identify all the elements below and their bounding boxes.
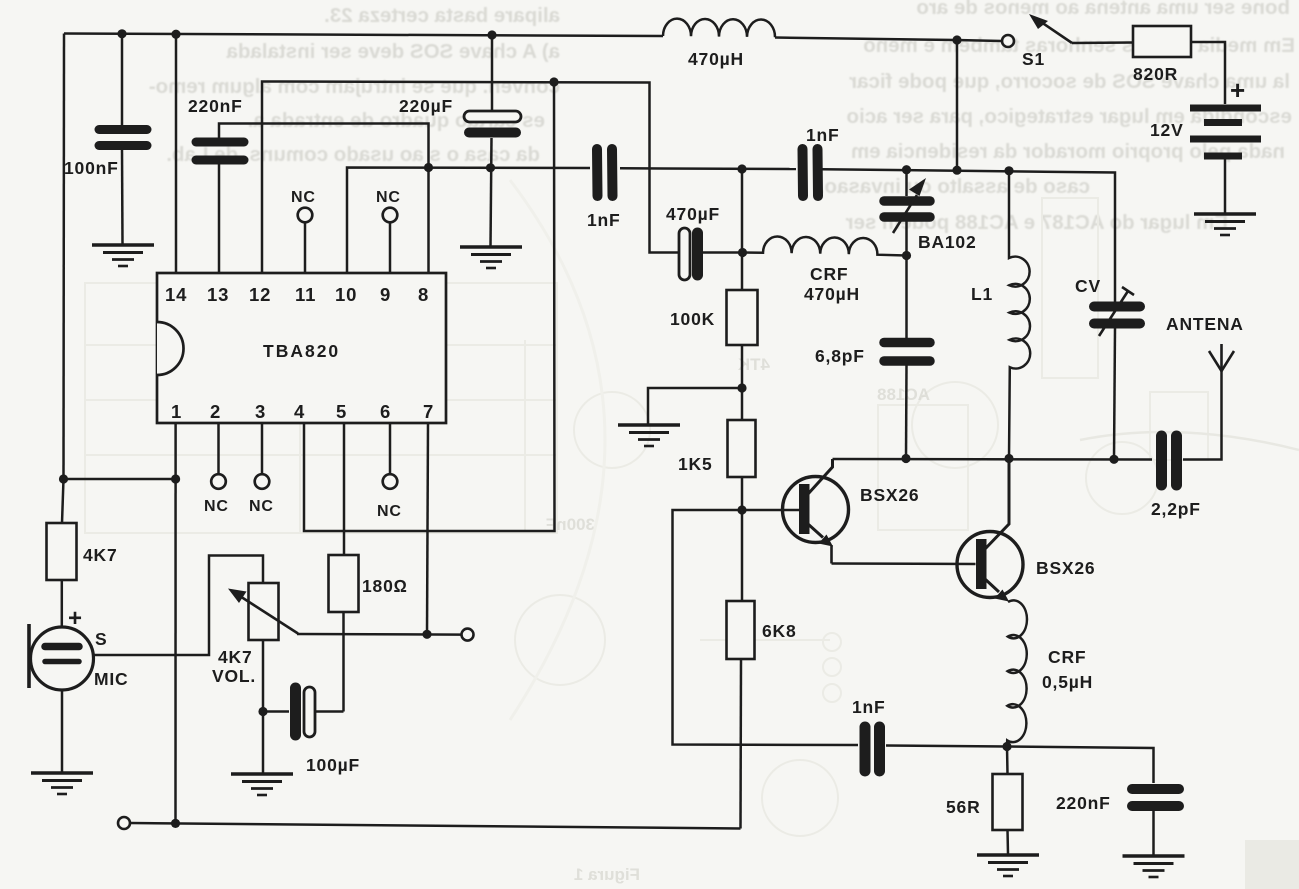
svg-text:56R: 56R (946, 797, 981, 817)
transistor Q1 base bar (799, 484, 810, 534)
ground below 220nF (1123, 856, 1185, 877)
resistor 4K7 body (47, 523, 77, 580)
capacitor 220uF bottom lead to ground (491, 138, 492, 246)
svg-text:10: 10 (335, 284, 357, 305)
terminal open circle bottom left (118, 817, 130, 829)
node junction dot bottom rail pin1 (171, 819, 180, 828)
svg-text:alipare basta certeza 23.: alipare basta certeza 23. (324, 4, 560, 27)
varicap BA102 bottom lead (905, 221, 908, 256)
svg-text:NC: NC (204, 498, 229, 515)
microphone MIC circle (31, 627, 94, 690)
wire: RF node to 220nF corner (1007, 747, 1154, 784)
inductor CRF 0.5uH (vertical) (1007, 600, 1027, 746)
svg-text:S1: S1 (1022, 49, 1045, 69)
node junction dot pin7 on wiper wire (422, 630, 431, 639)
wire: bypass rail between 1nF caps (620, 167, 796, 170)
wire: pin10 up to bypass net rail (347, 168, 590, 274)
svg-text:0,5µH: 0,5µH (1042, 672, 1093, 692)
wire: 820R to battery positive (1191, 42, 1225, 104)
wire: wiper to output terminal (297, 633, 461, 636)
node junction dot 6.8pF on collector rail (901, 454, 910, 463)
wire: 6.8pF to collector rail (905, 365, 908, 458)
node junction dot before switch S1 (952, 35, 961, 44)
node junction dot Q1 base (737, 505, 746, 514)
resistor 6K8 body (727, 601, 755, 659)
microphone element bars (45, 647, 79, 662)
wire: 180R bottom to 100uF right (342, 612, 345, 712)
LABEL-LAYER (64, 49, 1246, 817)
ground below 220uF (460, 247, 522, 268)
wire: bottom return rail (130, 823, 741, 829)
node junction dot mic supply left (59, 474, 68, 483)
svg-text:L1: L1 (971, 284, 993, 304)
potentiometer wiper arrow (228, 589, 298, 634)
svg-text:BA102: BA102 (918, 232, 976, 252)
wire: bias node to 1K5 (741, 388, 744, 420)
svg-text:1nF: 1nF (806, 125, 840, 145)
wire: top rail from coil to switch S1 (775, 38, 1002, 42)
ground below 56R (977, 855, 1039, 876)
inductor CRF 470uH (horizontal) (743, 236, 907, 255)
transistor Q1 collector (808, 459, 833, 494)
svg-text:Em media com as senhoras tambe: Em media com as senhoras tambem e meno (863, 34, 1295, 57)
capacitor 220uF solid plate (469, 128, 516, 138)
svg-text:9: 9 (380, 284, 391, 305)
svg-text:6,8pF: 6,8pF (815, 346, 865, 366)
svg-text:VOL.: VOL. (212, 666, 256, 686)
svg-text:NC: NC (376, 189, 401, 206)
wire: pin7 column down to wiper node (427, 423, 428, 634)
transistor Q2 emitter with arrow (985, 579, 1009, 602)
svg-text:2: 2 (210, 401, 221, 422)
IC pin 9 lead and NC circle (383, 208, 398, 273)
wire: 100uF right plate lead (315, 710, 344, 713)
node junction dot 100K feed (737, 164, 746, 173)
wire: 4K7 top lead (62, 479, 64, 523)
svg-text:100µF: 100µF (306, 755, 360, 775)
wire: pin5 column to 180R (343, 423, 346, 555)
capacitor 100nF lead bottom (121, 150, 124, 244)
node junction dot at pin14 column top (171, 30, 180, 39)
ground below 100nF (92, 245, 154, 266)
node junction dot CV bottom on collector rail (1109, 455, 1118, 464)
svg-text:+: + (68, 605, 83, 632)
capacitor 1nF (to varicap) plates (803, 149, 819, 196)
svg-text:180Ω: 180Ω (362, 576, 408, 596)
wire: pin1 column down to bottom rail (174, 423, 177, 823)
svg-text:AC188: AC188 (877, 385, 930, 404)
wire: 56R to ground (1006, 830, 1009, 854)
wire: 4K7 to microphone (61, 580, 64, 627)
ground below microphone (31, 773, 93, 794)
svg-text:1nF: 1nF (587, 210, 621, 230)
varicap BA102 top lead (905, 170, 908, 196)
battery 12V plates (1190, 108, 1261, 156)
capacitor 220uF top lead (491, 35, 494, 112)
svg-text:6: 6 (380, 401, 391, 422)
wire: pin14 column to top rail (175, 34, 178, 273)
node junction dot 470uF/CRF/100K (738, 248, 747, 257)
svg-text:100K: 100K (670, 309, 715, 329)
node junction dot S1 riser bottom (952, 166, 961, 175)
wire: Q1 base node down to 6K8 (741, 510, 744, 601)
capacitor 100nF lead top (121, 34, 124, 125)
svg-text:Figura 1: Figura 1 (574, 865, 640, 884)
node junction dot BA102 top (902, 165, 911, 174)
svg-text:BSX26: BSX26 (860, 485, 919, 505)
svg-text:14: 14 (165, 284, 187, 305)
resistor 180R body (329, 555, 359, 612)
capacitor 100nF plates (99, 130, 147, 146)
svg-text:4: 4 (294, 401, 305, 422)
wire: battery negative lead (1224, 159, 1227, 214)
transistor Q2 base bar (976, 539, 987, 589)
resistor 1K5 body (728, 420, 756, 477)
transistor Q1 BSX26 circle (783, 477, 849, 543)
svg-text:conven. que se intrujam com al: conven. que se intrujam com algum remo- (149, 75, 560, 98)
node junction dot mic supply right (171, 474, 180, 483)
ground at bias stub (618, 425, 680, 446)
terminal open circle wiper output (462, 629, 474, 641)
wire: switch arm to resistor 820R (1072, 41, 1133, 44)
wire: 220nF bottom plate to pin13 (218, 164, 221, 273)
wire: microphone bottom to ground (61, 690, 64, 772)
svg-text:12: 12 (249, 284, 271, 305)
svg-text:12V: 12V (1150, 120, 1184, 140)
capacitor 6.8pF plates (884, 343, 930, 362)
wire: pot bottom to ground (262, 640, 265, 773)
resistor 56R body (993, 774, 1023, 830)
svg-text:6K8: 6K8 (762, 621, 797, 641)
transistor Q1 emitter with arrow (808, 524, 833, 564)
svg-text:bone ser uma antena ao menos d: bone ser uma antena ao menos de aro (916, 0, 1290, 19)
node junction dot pin4 riser on pin12 net (549, 77, 558, 86)
ground below potentiometer (231, 774, 293, 795)
resistor 820R body (1133, 26, 1191, 57)
IC U1 notch (157, 322, 184, 375)
svg-text:470µH: 470µH (804, 284, 860, 304)
varicap BA102 plates (884, 201, 930, 217)
wire: 220nF top plate over to pin8 column (219, 124, 429, 274)
svg-text:100nF: 100nF (64, 158, 119, 178)
svg-text:BSX26: BSX26 (1036, 558, 1095, 578)
wire: 2.2pF to antenna (1183, 372, 1222, 460)
transistor Q2 BSX26 circle (957, 532, 1023, 598)
node junction dot L1 top (1004, 166, 1013, 175)
wire: collector tank rail (833, 458, 1153, 461)
svg-text:1nF: 1nF (852, 697, 886, 717)
capacitor 1nF (feedback) plates (865, 727, 880, 771)
capacitor CV plates (1094, 307, 1140, 324)
wire: S1 riser vertical (956, 40, 959, 170)
capacitor 2.2pF plates (1162, 436, 1177, 485)
wire: microphone output to pot top (94, 556, 264, 656)
svg-text:820R: 820R (1133, 64, 1178, 84)
svg-text:nada pelo proprio morador da r: nada pelo proprio morador da residencia … (851, 140, 1285, 163)
capacitor 220nF (emitter) plates (1132, 789, 1179, 806)
svg-text:220nF: 220nF (188, 96, 243, 116)
svg-text:CV: CV (1075, 276, 1101, 296)
svg-text:TBA820: TBA820 (263, 341, 340, 361)
svg-text:4K7: 4K7 (83, 545, 118, 565)
wire: Q1 emitter to Q2 base (832, 562, 976, 565)
svg-text:220µF: 220µF (399, 96, 453, 116)
wire: top supply rail left section (64, 34, 663, 37)
node junction dot at 220uF top (487, 30, 496, 39)
node junction dot L1 bottom on collector rail (1004, 454, 1013, 463)
switch S1 open contact circle (1002, 35, 1014, 47)
svg-text:2,2pF: 2,2pF (1151, 499, 1201, 519)
wire: 56R top lead (1006, 747, 1009, 775)
capacitor 470uF solid plate (692, 233, 703, 275)
varicap BA102 arrow (893, 178, 926, 233)
wire: pin12 up and right to oscillator feed (262, 82, 679, 274)
svg-text:1K5: 1K5 (678, 454, 713, 474)
antenna symbol (1209, 344, 1234, 372)
transistor Q2 collector (985, 459, 1009, 550)
svg-text:7: 7 (423, 401, 434, 422)
ground below battery (1194, 214, 1256, 235)
wire: BA102 node down to 6.8pF (905, 256, 908, 339)
capacitor 100uF hollow plate (304, 687, 315, 737)
wire: base node to Q1 base bar (742, 509, 799, 512)
capacitor 220nF plates (196, 142, 244, 160)
switch S1 arm with arrowhead (1029, 14, 1072, 43)
svg-text:CRF: CRF (1048, 647, 1086, 667)
node junction dot emitter RF node (1002, 742, 1011, 751)
capacitor 1nF (audio in) plates (597, 149, 613, 196)
node junction dot bias divider top (737, 383, 746, 392)
wire: 1nF to emitter RF node (886, 746, 1007, 747)
IC pin 6 lead and NC circle (383, 423, 398, 489)
IC U1 TBA820 body (157, 273, 446, 423)
node junction dot pin8 column on bypass net (424, 163, 433, 172)
node junction dot pot bottom / 100uF (258, 707, 267, 716)
svg-text:ANTENA: ANTENA (1166, 314, 1244, 334)
svg-text:NC: NC (249, 498, 274, 515)
svg-text:8: 8 (418, 284, 429, 305)
IC pin 11 lead and NC circle (298, 208, 313, 273)
svg-text:11: 11 (295, 284, 316, 305)
wire: 220nF to ground (1152, 810, 1155, 855)
svg-text:caso de assalto ou invasao.: caso de assalto ou invasao. (819, 175, 1090, 198)
wire: pin4 down right and up riser (304, 82, 555, 531)
IC pin 2 lead and NC circle (211, 423, 226, 489)
capacitor 220uF hollow plate (464, 111, 521, 122)
wire: left rail vertical (62, 34, 65, 480)
inductor L1 (1009, 171, 1030, 459)
capacitor 100uF solid plate (290, 688, 301, 735)
svg-text:1: 1 (171, 401, 182, 422)
resistor 100K body (727, 290, 758, 345)
wire: CV bottom lead (1114, 328, 1115, 459)
wire: 100K feed lead (741, 169, 744, 290)
svg-text:3: 3 (255, 401, 266, 422)
svg-text:220nF: 220nF (1056, 793, 1111, 813)
svg-text:CRF: CRF (810, 264, 848, 284)
svg-text:+: + (1230, 75, 1246, 105)
svg-text:470µF: 470µF (666, 204, 720, 224)
svg-text:4K7: 4K7 (218, 647, 253, 667)
svg-text:MIC: MIC (94, 669, 128, 689)
wire: 6K8 down to bottom rail corner (739, 659, 742, 829)
svg-text:S: S (95, 629, 107, 649)
potentiometer 4K7 VOL body (249, 583, 279, 640)
svg-text:a) A chave SOS deve ser instal: a) A chave SOS deve ser instalada (226, 40, 560, 63)
node junction dot 220uF lead crossing (486, 163, 495, 172)
node junction dot BA102 bottom / CRF right (902, 251, 911, 260)
wire: feedback loop left of Q1 (673, 510, 859, 745)
wire: mic supply link (64, 478, 176, 481)
svg-text:NC: NC (291, 189, 316, 206)
svg-text:470µH: 470µH (688, 49, 744, 69)
microphone side bar (27, 624, 31, 688)
IC pin 3 lead and NC circle (255, 423, 270, 489)
inductor 470uH (top) (663, 19, 775, 38)
svg-text:13: 13 (207, 284, 229, 305)
wire: 100K to bias node (741, 345, 744, 388)
wire: pot bottom to 100uF left plate (263, 710, 289, 713)
wire: bias node stub to ground (648, 388, 742, 424)
svg-text:NC: NC (377, 503, 402, 520)
wire: 470uF right lead to 100K top node (703, 251, 742, 254)
capacitor CV top lead (1114, 300, 1117, 303)
svg-text:5: 5 (336, 401, 347, 422)
wire: bypass rail 1nF to CV corner (822, 169, 1115, 301)
node junction dot at 100nF top (117, 29, 126, 38)
capacitor 470uF hollow plate (679, 228, 690, 280)
capacitor CV trimmer arrow (1099, 287, 1134, 336)
wire: 1K5 to Q1 base node (741, 477, 744, 510)
